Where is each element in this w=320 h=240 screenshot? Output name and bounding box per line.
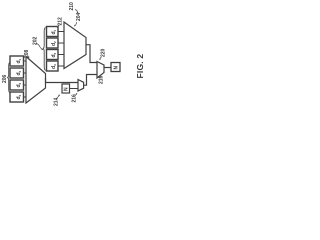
svg-text:d4: d4 — [16, 94, 22, 99]
svg-text:206: 206 — [2, 74, 8, 83]
svg-text:204: 204 — [76, 12, 82, 21]
svg-text:202: 202 — [33, 36, 39, 45]
svg-text:d2: d2 — [51, 41, 57, 46]
svg-text:214: 214 — [54, 97, 60, 106]
svg-text:218: 218 — [99, 75, 105, 84]
svg-text:d4: d4 — [51, 64, 57, 69]
svg-text:N: N — [114, 66, 120, 70]
svg-text:FIG. 2: FIG. 2 — [135, 54, 145, 79]
svg-text:210: 210 — [69, 2, 75, 11]
svg-text:208: 208 — [24, 49, 30, 58]
svg-text:d1: d1 — [51, 29, 57, 34]
svg-text:d1: d1 — [16, 58, 22, 63]
svg-text:216: 216 — [72, 94, 78, 103]
svg-text:d3: d3 — [51, 52, 57, 57]
svg-text:N: N — [64, 87, 70, 91]
svg-text:d3: d3 — [16, 82, 22, 87]
svg-text:212: 212 — [58, 17, 64, 26]
svg-text:d2: d2 — [16, 70, 22, 75]
svg-text:220: 220 — [101, 48, 107, 57]
